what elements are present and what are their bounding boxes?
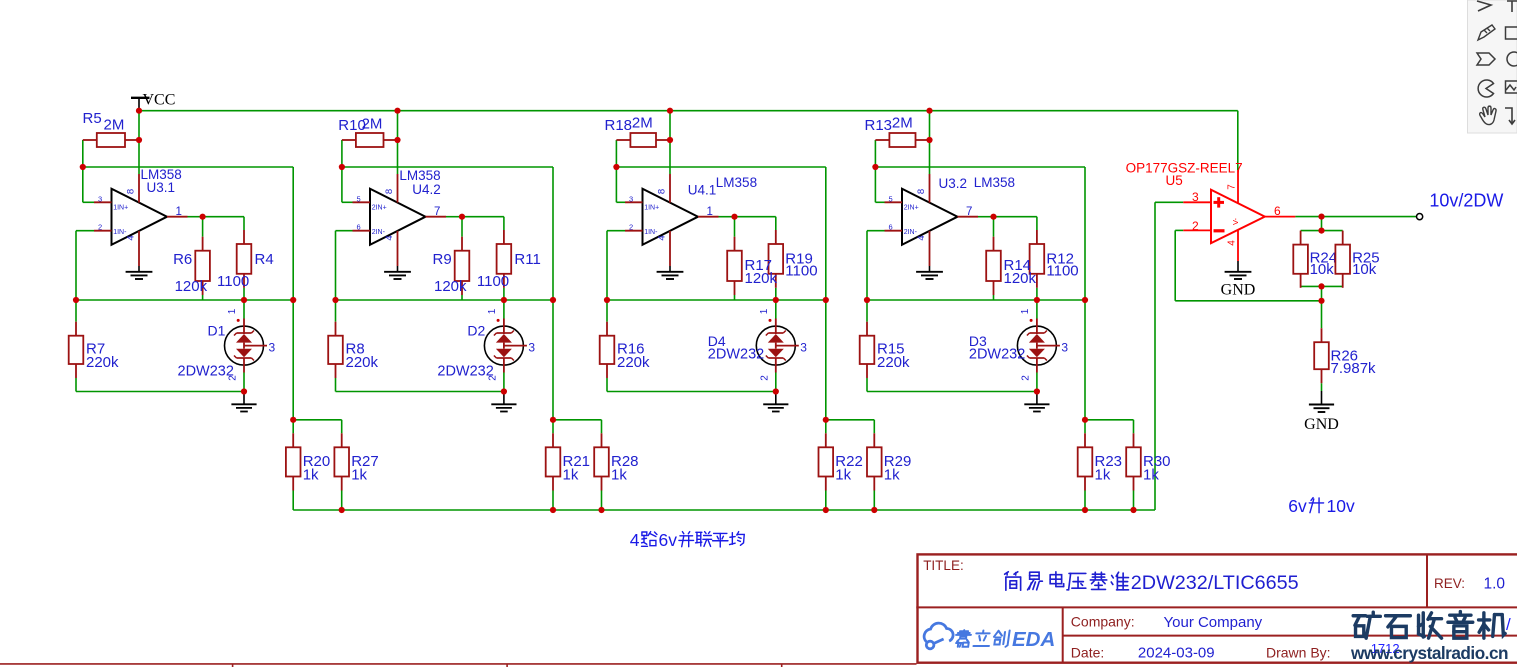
svg-text:120k: 120k [175, 278, 208, 295]
wire junction row block 1 [76, 299, 293, 301]
title text [1005, 572, 1021, 590]
watermark crystalradio [1353, 612, 1380, 638]
wire feedback row block 4 [616, 166, 825, 168]
resistor R18 2M [616, 139, 630, 141]
ground op-amp [669, 266, 671, 272]
resistor R6 120k [202, 237, 204, 251]
svg-text:1k: 1k [611, 467, 627, 484]
wire R2M left drop block 1 [82, 140, 84, 167]
resistor R30 1k [1133, 433, 1135, 447]
title block border [918, 554, 1517, 662]
op-amp U4.1 LM358 [643, 189, 699, 245]
svg-text:2: 2 [759, 375, 770, 381]
svg-text:7.987k: 7.987k [1331, 360, 1377, 377]
svg-text:2: 2 [98, 223, 102, 232]
svg-text:U4.2: U4.2 [412, 182, 441, 197]
wire diode ground row block 3 [867, 391, 1037, 393]
wire rail to pin8 block 3 [929, 111, 931, 174]
svg-text:VCC: VCC [143, 92, 176, 109]
svg-text:10v: 10v [1327, 496, 1355, 516]
ground op-amp [397, 266, 399, 272]
junction dots U5 area [1318, 214, 1324, 220]
toolbar icon pencil [1478, 25, 1495, 40]
svg-text:REV:: REV: [1434, 576, 1465, 591]
svg-text:R4: R4 [255, 251, 274, 268]
resistor R28 1k [601, 433, 603, 447]
ground U5 [1237, 261, 1239, 272]
resistor R27 1k [341, 433, 343, 447]
svg-text:5: 5 [357, 194, 361, 203]
wire R2M left drop block 2 [341, 140, 343, 167]
wire diode pin1 block 2 [503, 300, 505, 319]
wire rail to U5 pin 3 [1154, 202, 1156, 510]
toolbar icon hand [1480, 106, 1496, 124]
svg-text:7: 7 [434, 206, 440, 218]
svg-text:R5: R5 [83, 110, 102, 127]
junctions block D2 [394, 108, 400, 114]
resistor R8 220k [335, 322, 337, 336]
svg-text:2IN+: 2IN+ [904, 205, 919, 212]
svg-text:1100: 1100 [1046, 263, 1078, 280]
svg-text:2IN-: 2IN- [372, 229, 386, 236]
svg-text:R18: R18 [605, 117, 633, 134]
resistor R29 1k [873, 433, 875, 447]
svg-text:7: 7 [1227, 184, 1238, 190]
svg-text:GND: GND [1221, 282, 1256, 299]
svg-text:3: 3 [528, 341, 535, 355]
toolbar icon ellipse [1507, 52, 1517, 66]
wire 1k pair link block 1 [293, 419, 342, 421]
resistor R22 1k [825, 433, 827, 447]
toolbar icon rect [1506, 27, 1517, 39]
resistor R13 2M [875, 139, 889, 141]
svg-text:3: 3 [629, 194, 633, 203]
resistor R10 2M [342, 139, 356, 141]
svg-text:D1: D1 [208, 323, 226, 339]
wire R bottoms block 1 [202, 295, 204, 300]
svg-text:5: 5 [889, 194, 893, 203]
open terminal 10v/2DW [1417, 214, 1423, 220]
svg-text:120k: 120k [434, 278, 467, 295]
resistor R23 1k [1084, 433, 1086, 447]
wire R220 column block 2 [335, 300, 337, 322]
ground R26 [1321, 391, 1323, 404]
svg-text:1IN-: 1IN- [644, 229, 658, 236]
wire output node block 4 [719, 216, 735, 218]
wire diode pin1 block 1 [243, 300, 245, 319]
svg-text:3: 3 [269, 341, 276, 355]
svg-text:8: 8 [916, 189, 927, 194]
svg-text:2IN+: 2IN+ [372, 205, 387, 212]
svg-text:R13: R13 [865, 117, 893, 134]
toolbar icon flag [1477, 53, 1495, 65]
svg-text:1: 1 [707, 206, 713, 218]
junctions block D1 [136, 108, 142, 114]
wire 1k to rail block 1 [292, 491, 294, 511]
svg-text:1k: 1k [351, 467, 367, 484]
wire R220 column block 3 [866, 300, 868, 322]
wire to pin- block 1 [76, 230, 94, 232]
wire R bottoms block 3 [993, 295, 995, 300]
resistor R19 1100 [775, 230, 777, 244]
svg-text:R11: R11 [514, 251, 540, 268]
wire to pin+ block 2 [341, 167, 343, 202]
dual zener D1 2DW232 [225, 326, 264, 365]
wire diode pin1 block 4 [775, 300, 777, 319]
junctions block D3 [926, 108, 932, 114]
wire feedback row block 2 [342, 166, 553, 168]
svg-text:EDA: EDA [1012, 628, 1055, 651]
svg-text:6v: 6v [659, 530, 678, 550]
wire diode ground row block 2 [336, 391, 504, 393]
ground D1 [243, 392, 245, 405]
svg-text:4: 4 [1227, 240, 1238, 246]
wire R220 column block 4 [606, 300, 608, 322]
power flag VCC [131, 97, 150, 99]
svg-text:120k: 120k [1004, 270, 1037, 287]
wire 1k to rail block 3 [1084, 491, 1086, 511]
wire 1k pair link block 3 [1085, 419, 1134, 421]
wire junction row block 3 [867, 299, 1085, 301]
svg-text:3: 3 [98, 194, 102, 203]
ground op-amp [138, 266, 140, 272]
svg-text:1IN+: 1IN+ [644, 205, 659, 212]
resistor R15 220k [866, 322, 868, 336]
wire output node block 3 [978, 216, 994, 218]
svg-text:U3.1: U3.1 [147, 180, 176, 195]
wire R bottoms block 2 [461, 295, 463, 300]
svg-text:2024-03-09: 2024-03-09 [1138, 645, 1215, 662]
svg-text:8: 8 [384, 189, 395, 194]
toolbar panel [1468, 0, 1517, 133]
svg-text:6: 6 [889, 223, 893, 232]
dual zener D2 2DW232 [484, 326, 523, 365]
svg-text:6: 6 [1274, 204, 1281, 218]
svg-text:1: 1 [759, 308, 770, 314]
svg-text:D2: D2 [467, 323, 485, 339]
wire output node block 1 [188, 216, 203, 218]
wire feedback row block 3 [875, 166, 1085, 168]
svg-text:2: 2 [1192, 219, 1199, 233]
wire 1k pair link block 4 [826, 419, 875, 421]
svg-text:4: 4 [630, 530, 640, 550]
svg-text:1: 1 [1020, 308, 1031, 314]
op-amp U5 OP177GSZ-REEL7 [1211, 190, 1265, 244]
svg-text:4: 4 [384, 235, 395, 240]
svg-text:220k: 220k [877, 354, 910, 371]
wire right vertical block 4 [825, 167, 827, 420]
ground D2 [503, 392, 505, 405]
wire right vertical block 3 [1084, 167, 1086, 420]
svg-text:1k: 1k [835, 467, 851, 484]
svg-text:3: 3 [1061, 341, 1068, 355]
wire R bottoms block 4 [734, 295, 736, 300]
wire right vertical block 1 [292, 167, 294, 420]
wire VCC rail [139, 110, 1238, 112]
svg-text:2DW232: 2DW232 [708, 347, 764, 363]
svg-text:10v/2DW: 10v/2DW [1429, 191, 1503, 211]
wire 1k to rail block 2 [552, 491, 554, 511]
svg-text:2: 2 [629, 223, 633, 232]
svg-text:6v: 6v [1288, 496, 1307, 516]
junctions block D4 [667, 108, 673, 114]
toolbar icon image [1506, 81, 1517, 93]
svg-text:U4.1: U4.1 [688, 183, 717, 198]
svg-text:1k: 1k [1143, 467, 1159, 484]
svg-text:V-: V- [1231, 217, 1240, 225]
svg-text:2M: 2M [632, 115, 653, 132]
svg-text:1100: 1100 [477, 273, 509, 290]
JLC EDA logo cloud [924, 623, 953, 649]
resistor R11 1100 [503, 230, 505, 244]
wire to pin- block 4 [607, 230, 625, 232]
wire R2M left drop block 3 [874, 140, 876, 167]
svg-text:1IN+: 1IN+ [113, 205, 128, 212]
wire output node block 2 [446, 216, 462, 218]
svg-text:1k: 1k [563, 467, 579, 484]
sheet frame bottom border [0, 663, 917, 665]
svg-text:2DW232: 2DW232 [437, 364, 493, 380]
resistor R20 1k [292, 433, 294, 447]
wire R220 column block 1 [75, 300, 77, 322]
svg-text:10k: 10k [1352, 261, 1377, 278]
ground D4 [775, 392, 777, 405]
svg-text:120k: 120k [745, 270, 778, 287]
toolbar icon arc [1478, 80, 1493, 97]
svg-text:LM358: LM358 [974, 175, 1015, 190]
svg-text:1k: 1k [303, 467, 319, 484]
svg-text:1k: 1k [884, 467, 900, 484]
svg-text:220k: 220k [86, 354, 119, 371]
svg-text:1: 1 [176, 206, 182, 218]
svg-text:220k: 220k [346, 354, 379, 371]
svg-text:1IN-: 1IN- [113, 229, 127, 236]
dual zener D4 2DW232 [756, 326, 795, 365]
wire diode ground row block 4 [607, 391, 776, 393]
svg-text:8: 8 [126, 189, 137, 194]
wire rail to pin8 block 2 [397, 111, 399, 174]
resistor R17 120k [734, 237, 736, 251]
svg-text:www.crystalradio.cn: www.crystalradio.cn [1350, 643, 1508, 663]
wire diode ground row block 1 [76, 391, 244, 393]
svg-text:3: 3 [1192, 190, 1199, 204]
svg-text:1100: 1100 [785, 263, 817, 280]
resistor R26 7.987k [1321, 328, 1323, 342]
svg-text:2IN-: 2IN- [904, 229, 918, 236]
resistor R21 1k [552, 433, 554, 447]
wire bottom averaging rail [293, 509, 1155, 511]
svg-text:2M: 2M [104, 117, 125, 134]
svg-text:Drawn By:: Drawn By: [1266, 645, 1331, 661]
wire R2M left drop block 4 [615, 140, 617, 167]
svg-text:TITLE:: TITLE: [923, 558, 964, 573]
svg-text:1.0: 1.0 [1484, 576, 1506, 593]
JLC EDA logo text [954, 630, 971, 647]
wire junction row block 4 [607, 299, 826, 301]
svg-text:1: 1 [227, 308, 238, 314]
svg-text:LM358: LM358 [399, 168, 440, 183]
svg-text:2M: 2M [362, 116, 383, 133]
svg-text:R9: R9 [433, 251, 452, 268]
svg-text:220k: 220k [617, 354, 650, 371]
svg-text:7: 7 [966, 206, 972, 218]
op-amp U4.2 LM358 [370, 189, 426, 245]
resistor R7 220k [75, 322, 77, 336]
dual zener D3 2DW232 [1017, 326, 1056, 365]
wire to pin+ block 1 [82, 167, 84, 202]
wire 1k to rail block 4 [825, 491, 827, 511]
svg-text:1: 1 [487, 308, 498, 314]
svg-text:2M: 2M [892, 115, 913, 132]
svg-text:U3.2: U3.2 [939, 176, 968, 191]
svg-text:3: 3 [800, 341, 807, 355]
svg-text:Date:: Date: [1071, 645, 1104, 661]
wire right vertical block 2 [552, 167, 554, 420]
resistor R25 10k [1342, 231, 1344, 245]
wire to pin- block 2 [336, 230, 353, 232]
svg-text:10k: 10k [1310, 261, 1335, 278]
toolbar icon wire corner [1505, 108, 1515, 124]
svg-text:1k: 1k [1095, 467, 1111, 484]
svg-text:LM358: LM358 [716, 175, 757, 190]
resistor R16 220k [606, 322, 608, 336]
svg-text:8: 8 [657, 189, 668, 194]
wire rail to pin8 block 4 [669, 111, 671, 174]
op-amp U3.1 LM358 [112, 189, 168, 245]
svg-text:2: 2 [1020, 375, 1031, 381]
wire rail to pin8 block 1 [138, 111, 140, 174]
svg-text:2DW232: 2DW232 [969, 347, 1025, 363]
svg-text:4: 4 [916, 235, 927, 240]
toolbar icon arrow [1477, 1, 1491, 11]
svg-text:1100: 1100 [217, 273, 249, 290]
svg-text:OP177GSZ-REEL7: OP177GSZ-REEL7 [1126, 161, 1243, 176]
wire to pin+ block 4 [615, 167, 617, 202]
wire to pin- block 3 [867, 230, 885, 232]
svg-text:4: 4 [657, 235, 668, 240]
resistor R9 120k [461, 237, 463, 251]
wire junction row block 2 [336, 299, 554, 301]
ground op-amp [929, 266, 931, 272]
svg-text:U5: U5 [1166, 173, 1183, 188]
svg-text:/: / [1506, 615, 1511, 634]
ground D3 [1036, 392, 1038, 405]
resistor R5 2M [83, 139, 97, 141]
wire to pin+ block 3 [874, 167, 876, 202]
svg-text:Your Company: Your Company [1164, 614, 1263, 631]
svg-text:Company:: Company: [1071, 614, 1135, 630]
svg-text:6: 6 [357, 223, 361, 232]
resistor R24 10k [1300, 231, 1302, 245]
svg-text:GND: GND [1304, 416, 1339, 433]
wire 1k pair link block 2 [553, 419, 602, 421]
svg-text:R6: R6 [173, 251, 192, 268]
wire feedback row block 1 [83, 166, 293, 168]
svg-text:2DW232: 2DW232 [178, 364, 234, 380]
op-amp U3.2 LM358 [902, 189, 958, 245]
wires U5 output network [1295, 216, 1416, 218]
resistor R14 120k [993, 237, 995, 251]
toolbar icon text T [1507, 1, 1517, 12]
svg-text:4: 4 [126, 235, 137, 240]
svg-text:2DW232/LTIC6655: 2DW232/LTIC6655 [1131, 572, 1299, 594]
wire VCC rail drop to U5 pin 7 [1237, 111, 1239, 170]
wire diode pin1 block 3 [1036, 300, 1038, 319]
resistor R4 1100 [243, 230, 245, 244]
resistor R12 1100 [1036, 230, 1038, 244]
